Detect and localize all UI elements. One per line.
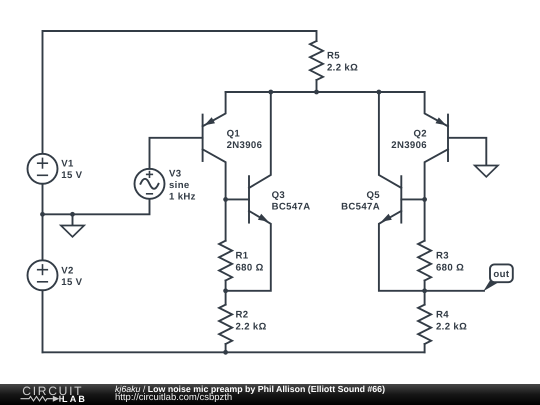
transistor Q1 (2N3906 PNP) <box>203 92 226 199</box>
transistor Q3 (BC547A NPN) <box>226 92 271 291</box>
wire ground stub <box>72 214 74 225</box>
wire from V1 top up and across to R5 top <box>43 31 317 154</box>
svg-text:BC547A: BC547A <box>272 201 311 212</box>
svg-text:15 V: 15 V <box>61 170 82 181</box>
transistor Q2 (2N3906 PNP, mirrored) <box>425 92 448 199</box>
svg-text:LAB: LAB <box>62 394 87 404</box>
svg-text:R4: R4 <box>436 310 449 321</box>
wire V1 bottom to V2 top <box>42 184 44 260</box>
svg-text:V2: V2 <box>61 265 73 276</box>
transistor Q5 (BC547A NPN, mirrored) <box>379 92 425 291</box>
wire R1 bottom to node <box>225 281 227 291</box>
wire out node to flag <box>425 290 484 292</box>
svg-text:2N3906: 2N3906 <box>227 140 263 151</box>
footer title text <box>115 385 385 394</box>
voltage source V3 (sine) <box>135 169 165 199</box>
svg-text:R3: R3 <box>436 251 449 262</box>
wire ground branch from V1-V2 node to V3 bottom <box>43 199 150 215</box>
ground symbol left <box>61 226 84 237</box>
resistor R5 <box>310 41 323 80</box>
node Q5 collector/rail junction <box>377 90 382 95</box>
footer url text <box>115 393 232 403</box>
svg-text:V3: V3 <box>169 169 181 180</box>
voltage source V2 <box>28 260 58 290</box>
node R3/R4/Q5 emitter/out junction <box>422 288 427 293</box>
wire Q2 collector to Q5 base <box>401 198 424 200</box>
svg-text:680 Ω: 680 Ω <box>236 263 264 274</box>
wire Q3 base node down to R1 <box>225 199 227 240</box>
wire Q5 base node down to R3 <box>424 199 426 240</box>
wire Q2 base to ground <box>448 138 486 166</box>
resistor R1 <box>219 241 232 281</box>
svg-text:15 V: 15 V <box>61 277 82 288</box>
node R2 bottom rail junction <box>223 350 228 355</box>
node Q1 collector / Q3 base / R1 junction <box>223 197 228 202</box>
node Q3 collector/rail junction <box>268 90 273 95</box>
resistor R3 <box>418 241 431 281</box>
svg-text:Q5: Q5 <box>367 190 381 201</box>
wire V2 bottom to bottom rail <box>42 290 44 352</box>
svg-text:Q2: Q2 <box>414 128 428 139</box>
svg-text:R1: R1 <box>236 251 249 262</box>
wire bottom rail <box>43 351 425 353</box>
svg-text:Q1: Q1 <box>227 128 241 139</box>
svg-text:R5: R5 <box>327 51 340 62</box>
out flag <box>483 264 513 291</box>
resistor R4 <box>418 305 431 344</box>
node R5/rail junction <box>314 90 319 95</box>
svg-text:R2: R2 <box>236 310 249 321</box>
wire node to R4 top <box>424 291 426 305</box>
wire R2 bottom to bottom rail <box>225 344 227 352</box>
wire supply rail (emitter rail) <box>226 91 425 93</box>
CircuitLab logo <box>0 384 110 405</box>
svg-text:Q3: Q3 <box>272 190 286 201</box>
footer bar <box>0 384 540 405</box>
svg-text:2.2 kΩ: 2.2 kΩ <box>327 63 358 74</box>
node Q2 collector / Q5 base / R3 junction <box>422 197 427 202</box>
wire V3 top to Q1 base <box>150 138 203 169</box>
svg-text:2N3906: 2N3906 <box>391 140 427 151</box>
voltage source V1 <box>28 154 58 184</box>
svg-text:2.2 kΩ: 2.2 kΩ <box>236 322 267 333</box>
svg-text:1 kHz: 1 kHz <box>169 192 196 203</box>
svg-text:2.2 kΩ: 2.2 kΩ <box>436 322 467 333</box>
svg-text:V1: V1 <box>61 158 74 169</box>
wire R4 bottom to bottom rail <box>424 344 426 352</box>
resistor R2 <box>219 305 232 344</box>
wire R3 bottom to node <box>424 281 426 291</box>
node V1/V2/ground-branch junction <box>40 212 45 217</box>
ground symbol right <box>475 166 498 177</box>
svg-text:680 Ω: 680 Ω <box>436 263 464 274</box>
svg-text:BC547A: BC547A <box>341 201 380 212</box>
svg-text:out: out <box>493 269 509 280</box>
node ground tap junction <box>70 212 75 217</box>
node R1/R2/Q3 emitter junction <box>223 288 228 293</box>
svg-text:sine: sine <box>169 180 190 191</box>
wire node to R2 top <box>225 291 227 305</box>
wire R5 bottom to supply rail <box>316 80 318 92</box>
wire Q1 collector to Q3 base <box>226 198 249 200</box>
